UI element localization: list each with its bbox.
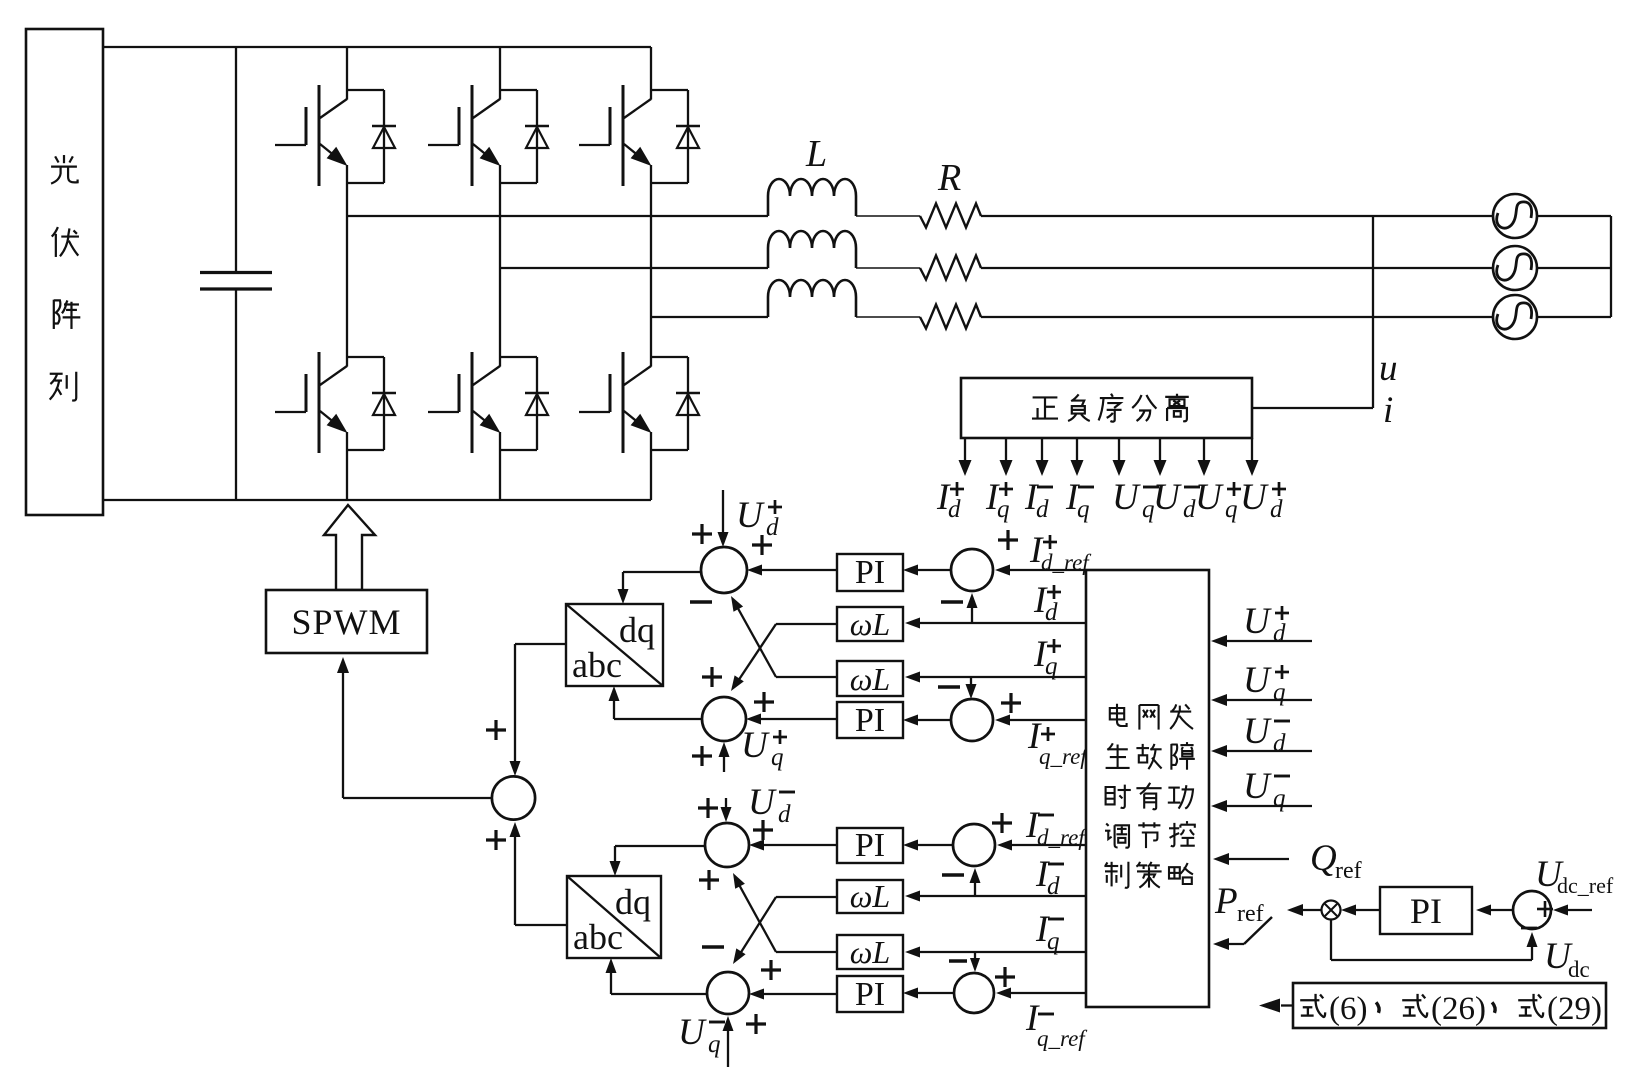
wire PI4 to summer6 bbox=[757, 993, 837, 995]
wire omegaL2 cross to summer1 bbox=[776, 676, 837, 678]
input Udc_ref arrow bbox=[1561, 909, 1592, 911]
svg-text:ωL: ωL bbox=[850, 661, 890, 697]
svg-text:U: U bbox=[1243, 766, 1272, 807]
arrow formula box out bbox=[1281, 1004, 1293, 1006]
wire grid line phase B bbox=[981, 267, 1611, 269]
sign + inside summer8 bbox=[1537, 901, 1553, 917]
summing junction 2 (Uq+) bbox=[702, 697, 746, 741]
sign - cross into summer6 bbox=[702, 945, 724, 948]
svg-text:q: q bbox=[997, 496, 1010, 523]
inductor L phase A bbox=[768, 179, 856, 216]
arrow sequence output 6 bbox=[1159, 438, 1161, 462]
summing junction 3 (Id ref+) bbox=[951, 549, 993, 591]
sign + dq2 branch bbox=[486, 830, 506, 850]
svg-text:q: q bbox=[1077, 496, 1090, 523]
PI block 1 bbox=[837, 554, 903, 591]
svg-text:dq: dq bbox=[615, 882, 651, 922]
wire Iq- from strategy box bbox=[913, 951, 1086, 953]
sign + Iqref- bbox=[995, 967, 1015, 987]
resistor R phase A bbox=[920, 204, 981, 228]
inductor L phase C bbox=[768, 280, 856, 317]
IGBT Q1 bbox=[275, 85, 384, 186]
diode D4 bbox=[372, 357, 396, 450]
svg-text:d: d bbox=[1273, 620, 1286, 647]
AC source grid phase B bbox=[1493, 246, 1537, 290]
svg-text:P: P bbox=[1214, 881, 1238, 922]
Pref switch bbox=[1213, 917, 1272, 950]
svg-text:ωL: ωL bbox=[850, 934, 890, 970]
sequence separation box 正负序分离 bbox=[961, 378, 1252, 438]
wire omegaL3 cross to summer6 bbox=[776, 896, 837, 898]
summing junction 4 (Iq ref+) bbox=[951, 699, 993, 741]
summing junction 5 (Id ref-) bbox=[953, 824, 995, 866]
sign + Uq+ bbox=[692, 746, 712, 766]
wire summer to SPWM bbox=[337, 657, 492, 798]
wire Iq+ down into summer4 bbox=[970, 677, 972, 691]
svg-text:d: d bbox=[1270, 496, 1283, 523]
diode D6 bbox=[676, 357, 700, 450]
wire Iqref- from strategy box bbox=[1004, 992, 1086, 994]
omega-L block 4 bbox=[837, 935, 903, 969]
svg-text:q: q bbox=[1273, 785, 1286, 812]
arrow sequence output 3 bbox=[1041, 438, 1043, 462]
summing junction A (Ud-) bbox=[705, 823, 749, 867]
svg-text:PI: PI bbox=[855, 976, 885, 1013]
svg-text:U: U bbox=[1243, 601, 1272, 642]
svg-text:U: U bbox=[1240, 477, 1269, 518]
wire summerA to dq2 top bbox=[610, 846, 706, 876]
svg-text:U: U bbox=[1243, 711, 1272, 752]
arrow sequence output 7 bbox=[1203, 438, 1205, 462]
wire inverter leg 2 bbox=[499, 47, 501, 500]
input Ud+ arrow into strategy box bbox=[1219, 640, 1312, 642]
svg-text:d: d bbox=[1273, 730, 1286, 757]
sign + Ud+ top bbox=[692, 524, 712, 544]
svg-text:d: d bbox=[778, 801, 791, 828]
summing junction 8 (Udc) bbox=[1513, 891, 1551, 929]
sign + Idref+ bbox=[998, 530, 1018, 550]
svg-text:q: q bbox=[1045, 653, 1058, 680]
sign - summer5 bbox=[942, 873, 964, 876]
wire summer7 to PI4 bbox=[911, 992, 954, 994]
wire phase B line bbox=[500, 267, 768, 269]
wire dq2 out to main summer bbox=[510, 822, 568, 925]
sign + PI2 input bbox=[754, 692, 774, 712]
SPWM drive hollow arrow bbox=[324, 505, 375, 590]
wire Id+ up into summer3 bbox=[971, 601, 973, 623]
formula box 式(6)(26)(29) bbox=[1293, 983, 1606, 1028]
dq/abc transform block 2 bbox=[567, 876, 661, 958]
svg-text:d: d bbox=[1045, 599, 1058, 626]
svg-text:U: U bbox=[748, 782, 777, 823]
svg-text:ωL: ωL bbox=[850, 878, 890, 914]
svg-text:q: q bbox=[771, 744, 784, 771]
wire measurement tap u/i bbox=[1252, 216, 1373, 408]
svg-text:d_ref: d_ref bbox=[1041, 550, 1092, 575]
svg-text:dc: dc bbox=[1568, 957, 1590, 982]
arrow sequence output 8 bbox=[1251, 438, 1253, 462]
sign + Ud- top bbox=[698, 798, 718, 818]
wire Id- up into summer5 bbox=[974, 876, 976, 896]
svg-text:(26): (26) bbox=[1431, 991, 1486, 1027]
svg-text:d: d bbox=[1047, 873, 1060, 900]
svg-text:abc: abc bbox=[573, 917, 623, 957]
resistor R phase B bbox=[920, 256, 981, 280]
wire L-R link phase C bbox=[856, 316, 920, 318]
summing junction main bbox=[492, 776, 535, 819]
multiplier circle bbox=[1322, 901, 1341, 920]
sign + PI4 input bbox=[761, 960, 781, 980]
wire summer6 to dq2 bottom bbox=[606, 958, 708, 994]
wire summer3 to PI1 bbox=[911, 569, 951, 571]
svg-text:R: R bbox=[937, 157, 961, 199]
PV array box 光伏阵列 bbox=[26, 29, 103, 515]
sign + dq1 branch bbox=[486, 720, 506, 740]
svg-text:U: U bbox=[741, 725, 770, 766]
strategy box 电网发生故障时有功调节控制策略 bbox=[1086, 570, 1209, 1007]
wire inverter leg 3 bbox=[650, 47, 652, 500]
wire grid line phase A bbox=[981, 215, 1611, 217]
svg-text:i: i bbox=[1383, 390, 1393, 431]
inductor L phase B bbox=[768, 231, 856, 268]
sign + cross into summer2 bbox=[702, 667, 722, 687]
svg-text:q: q bbox=[1047, 928, 1060, 955]
svg-text:U: U bbox=[678, 1012, 707, 1053]
wire summer1 to dq1 top bbox=[618, 572, 702, 604]
diode D1 bbox=[372, 90, 396, 183]
sign - summer7 bbox=[949, 959, 967, 962]
wire grid line phase C bbox=[981, 316, 1611, 318]
svg-text:U: U bbox=[1153, 477, 1182, 518]
wire DC bus positive (top) bbox=[103, 46, 651, 48]
wire Id- from strategy box bbox=[913, 895, 1086, 897]
wire PI1 to summer1 bbox=[755, 569, 837, 571]
input Uq- arrow into strategy box bbox=[1219, 805, 1312, 807]
PI block 3 bbox=[837, 828, 903, 863]
sign - cross into summer1 bbox=[690, 600, 712, 603]
PI block 5 bbox=[1380, 887, 1472, 934]
svg-text:(29): (29) bbox=[1547, 991, 1602, 1027]
wire L-R link phase A bbox=[856, 215, 920, 217]
wire grid right bus bbox=[1610, 216, 1612, 317]
wire omegaL1 cross to summer2 bbox=[776, 623, 837, 625]
svg-text:d_ref: d_ref bbox=[1037, 825, 1088, 850]
input Ud- arrow into strategy box bbox=[1219, 750, 1312, 752]
wire dq1 out to main summer bbox=[510, 644, 567, 776]
wire phase C line bbox=[651, 316, 768, 318]
PI block 2 bbox=[837, 702, 903, 738]
capacitor C (DC link) bbox=[200, 47, 272, 500]
wire Iq- down into summer7 bbox=[974, 952, 976, 964]
resistor R phase C bbox=[920, 305, 981, 329]
AC source grid phase C bbox=[1493, 295, 1537, 339]
summing junction 6 (Uq-) bbox=[707, 972, 749, 1014]
input Uq+ arrow into strategy box bbox=[1219, 699, 1312, 701]
summing junction 1 (Ud+) bbox=[701, 547, 747, 593]
arrow sequence output 5 bbox=[1118, 438, 1120, 462]
svg-text:L: L bbox=[805, 133, 827, 175]
sign + Iqref+ bbox=[1001, 693, 1021, 713]
IGBT Q3 bbox=[579, 85, 688, 186]
IGBT Q4 bbox=[275, 352, 384, 453]
sign - inside summer8 bbox=[1521, 927, 1537, 930]
wire Id+ from strategy box bbox=[913, 622, 1086, 624]
wire Idref- from strategy box bbox=[1005, 844, 1086, 846]
svg-text:d: d bbox=[948, 496, 961, 523]
svg-text:Q: Q bbox=[1310, 838, 1337, 879]
wire summer5 to PI3 bbox=[911, 844, 953, 846]
sign + PI3 input bbox=[753, 820, 773, 840]
sign + cross into summerA bbox=[699, 870, 719, 890]
wire Iq+ from strategy box bbox=[913, 676, 1086, 678]
svg-text:U: U bbox=[1243, 660, 1272, 701]
sign + PI1 input bbox=[752, 535, 772, 555]
svg-text:dc_ref: dc_ref bbox=[1557, 873, 1614, 898]
svg-text:q_ref: q_ref bbox=[1039, 744, 1090, 769]
omega-L block 2 bbox=[837, 661, 903, 696]
svg-text:q_ref: q_ref bbox=[1037, 1026, 1088, 1051]
svg-text:ref: ref bbox=[1335, 858, 1362, 884]
input Qref arrow into strategy box bbox=[1221, 858, 1289, 860]
svg-text:U: U bbox=[736, 495, 765, 536]
wire PI5 to multiplier bbox=[1349, 909, 1380, 911]
svg-text:q: q bbox=[1225, 496, 1238, 523]
wire summer8 to PI5 bbox=[1484, 909, 1513, 911]
sign - summer3 bbox=[941, 600, 963, 603]
wire inverter leg 1 bbox=[346, 47, 348, 500]
input Uq+ bottom arrow bbox=[723, 750, 725, 772]
IGBT Q2 bbox=[428, 85, 537, 186]
sign + Idref- bbox=[992, 813, 1012, 833]
svg-text:d: d bbox=[1036, 496, 1049, 523]
diode D3 bbox=[676, 90, 700, 183]
wire PI3 to summerA bbox=[757, 844, 837, 846]
arrow sequence output 4 bbox=[1076, 438, 1078, 462]
IGBT Q6 bbox=[579, 352, 688, 453]
svg-text:U: U bbox=[1112, 477, 1141, 518]
svg-text:d: d bbox=[766, 514, 779, 541]
wire summer2 to dq1 bottom bbox=[609, 686, 704, 719]
svg-text:SPWM: SPWM bbox=[291, 602, 401, 642]
wire Iqref+ from strategy box bbox=[1003, 719, 1086, 721]
svg-text:abc: abc bbox=[572, 645, 622, 685]
svg-text:PI: PI bbox=[1410, 891, 1442, 931]
omega-L block 1 bbox=[837, 607, 903, 641]
wire omegaL4 cross to summerA bbox=[776, 951, 837, 953]
PI block 4 bbox=[837, 976, 903, 1012]
wire phase A line bbox=[347, 215, 768, 217]
wire Idref+ from strategy box bbox=[1003, 569, 1086, 571]
input Uq- bottom arrow bbox=[727, 1024, 729, 1067]
wire Udc feedback bbox=[1331, 920, 1538, 961]
wire PI2 to summer2 bbox=[754, 718, 837, 720]
svg-text:dq: dq bbox=[619, 610, 655, 650]
svg-text:PI: PI bbox=[855, 554, 885, 591]
svg-text:ref: ref bbox=[1237, 901, 1264, 927]
input Ud+ top arrow bbox=[722, 490, 724, 539]
arrow sequence output 2 bbox=[1005, 438, 1007, 462]
svg-text:u: u bbox=[1379, 348, 1398, 389]
wire L-R link phase B bbox=[856, 267, 920, 269]
svg-text:(6): (6) bbox=[1329, 991, 1367, 1027]
omega-L block 3 bbox=[837, 880, 903, 913]
arrow sequence output 1 bbox=[964, 438, 966, 462]
svg-text:q: q bbox=[708, 1031, 721, 1058]
summing junction 7 (Iq ref-) bbox=[954, 973, 994, 1013]
sign - summer4 bbox=[938, 685, 960, 688]
svg-text:ωL: ωL bbox=[850, 606, 890, 642]
dq/abc transform block 1 bbox=[566, 604, 663, 686]
AC source grid phase A bbox=[1493, 194, 1537, 238]
SPWM box bbox=[266, 590, 427, 653]
svg-text:PI: PI bbox=[855, 827, 885, 864]
diode D5 bbox=[525, 357, 549, 450]
diode D2 bbox=[525, 90, 549, 183]
svg-text:PI: PI bbox=[855, 702, 885, 739]
IGBT Q5 bbox=[428, 352, 537, 453]
svg-text:U: U bbox=[1195, 477, 1224, 518]
wire multiplier to switch arrow bbox=[1295, 909, 1321, 911]
svg-text:q: q bbox=[1273, 679, 1286, 706]
sign + Uq- bbox=[746, 1014, 766, 1034]
input Ud- top arrow bbox=[725, 798, 727, 814]
wire summer4 to PI2 bbox=[911, 719, 951, 721]
wire DC bus negative (bottom) bbox=[103, 499, 651, 501]
